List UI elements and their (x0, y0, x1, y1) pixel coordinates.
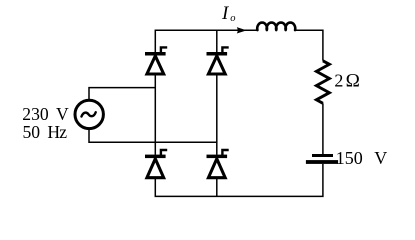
thyristor T3 gate (161, 150, 167, 155)
current arrow Io (237, 27, 247, 33)
svg-text:2Ω: 2Ω (334, 71, 359, 92)
wire inductor to resistor top (295, 30, 323, 61)
thyristor T3 bottom-left (145, 150, 167, 178)
thyristor T1 triangle (147, 56, 164, 74)
thyristor T2 cathode bar (207, 52, 228, 56)
battery E top short plate (312, 154, 333, 157)
thyristor T1 cathode bar (145, 52, 166, 56)
thyristor T2 triangle (208, 56, 225, 74)
svg-text:230V: 230V (22, 104, 69, 124)
wire ac source top to left leg (89, 88, 155, 100)
inductor L (257, 23, 295, 31)
thyristor T4 triangle (208, 159, 225, 178)
wire ac source bottom to right leg (89, 129, 217, 142)
wire left leg middle (154, 74, 156, 155)
wire right leg top segment (216, 30, 218, 52)
thyristor T1 top-left (145, 47, 167, 74)
ac source sine symbol (82, 112, 96, 116)
wire right leg bottom segment (216, 178, 218, 197)
wire battery bottom, bottom rail, left leg bottom (155, 164, 323, 197)
thyristor T2 gate (222, 47, 228, 52)
thyristor T4 bottom-right (207, 150, 229, 178)
thyristor T4 gate (222, 150, 228, 155)
wire resistor bottom to battery top (322, 103, 324, 154)
svg-text:150V: 150V (336, 148, 388, 168)
wire right leg middle (216, 74, 218, 155)
thyristor T1 gate (161, 47, 167, 52)
svg-text:I: I (221, 3, 230, 24)
thyristor T2 top-right (207, 47, 229, 74)
thyristor T3 triangle (147, 159, 164, 178)
resistor R 2ohm (316, 61, 329, 104)
svg-text:50Hz: 50Hz (23, 122, 68, 142)
thyristor T3 cathode bar (145, 155, 166, 159)
thyristor T4 cathode bar (207, 155, 228, 159)
battery E bottom long plate (306, 160, 338, 164)
wire top rail and left leg top (155, 30, 257, 52)
ac source circle (75, 100, 103, 128)
svg-text:o: o (230, 13, 235, 24)
